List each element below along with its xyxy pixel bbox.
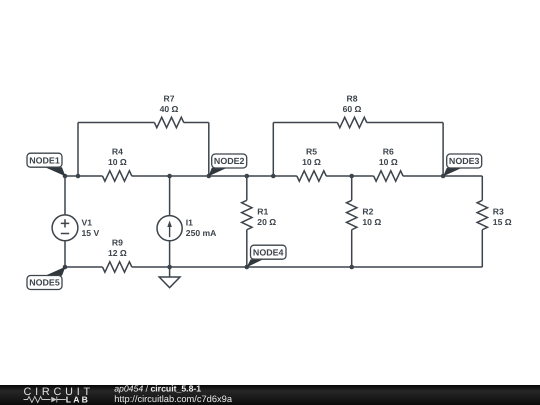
junction R7 left drop — [76, 174, 81, 179]
wire left rail top (NODE1 to V1) — [64, 176, 66, 215]
svg-text:R2: R2 — [362, 207, 373, 217]
svg-text:http://circuitlab.com/c7d6x9a: http://circuitlab.com/c7d6x9a — [114, 394, 233, 404]
ground symbol — [159, 267, 180, 288]
svg-text:NODE5: NODE5 — [29, 278, 60, 288]
svg-text:10 Ω: 10 Ω — [362, 217, 381, 227]
wire R8 top right segment — [367, 122, 443, 124]
node NODE1 callout — [27, 153, 65, 176]
label R4 10 Ohm — [108, 147, 127, 167]
current source I1 — [157, 216, 182, 241]
svg-text:R3: R3 — [493, 207, 504, 217]
junction bottom rail NODE5 — [63, 265, 68, 270]
wire R8 top left segment — [273, 122, 337, 124]
svg-text:ap0454 / circuit_5.8-1: ap0454 / circuit_5.8-1 — [114, 383, 201, 393]
svg-text:250 mA: 250 mA — [186, 228, 217, 238]
resistor R9 12 Ohm zigzag — [102, 262, 131, 272]
svg-text:R6: R6 — [383, 147, 394, 157]
label R3 15 Ohm — [493, 207, 512, 227]
label R8 60 Ohm — [343, 94, 362, 114]
svg-text:20 Ω: 20 Ω — [257, 217, 276, 227]
resistor R3 15 Ohm zigzag — [477, 200, 487, 229]
node NODE2 callout — [209, 154, 247, 176]
svg-text:NODE3: NODE3 — [449, 156, 480, 166]
junction R2 top — [349, 174, 354, 179]
wire top rail segment R6 to right corner — [403, 175, 482, 177]
wire right rail bottom (R3 to bottom) — [481, 230, 483, 267]
svg-text:R4: R4 — [112, 147, 123, 157]
svg-text:R7: R7 — [164, 94, 175, 104]
wire R8 left drop — [272, 123, 274, 177]
wire R7 top right segment — [184, 122, 209, 124]
label R5 10 Ohm — [302, 147, 321, 167]
wire bottom rail segment left corner to R9 — [65, 266, 102, 268]
resistor R2 10 Ohm zigzag — [347, 200, 357, 229]
wire R8 right drop — [442, 123, 444, 177]
svg-text:60 Ω: 60 Ω — [343, 104, 362, 114]
label R7 40 Ohm — [160, 94, 179, 114]
wire top rail segment R4 to R5 — [132, 175, 297, 177]
wire R1 bottom lead — [246, 230, 248, 267]
wire I1 bottom lead — [169, 241, 171, 267]
footer text line 2: url — [114, 394, 233, 404]
svg-text:40 Ω: 40 Ω — [160, 104, 179, 114]
resistor R6 10 Ohm zigzag — [374, 171, 403, 181]
junction R1 bottom NODE4 — [245, 265, 250, 270]
junction ground I1 bottom — [167, 265, 172, 270]
svg-text:I1: I1 — [186, 218, 193, 228]
wire R2 bottom lead — [351, 230, 353, 267]
svg-text:R9: R9 — [112, 237, 123, 247]
resistor R7 40 Ohm zigzag — [154, 117, 183, 127]
wire R2 top lead — [351, 176, 353, 200]
voltage source V1 — [52, 215, 78, 241]
label I1 250 mA — [186, 218, 217, 238]
wire R7 left drop — [77, 123, 79, 177]
resistor R1 20 Ohm zigzag — [242, 200, 252, 229]
svg-text:R1: R1 — [257, 207, 268, 217]
wire I1 top lead — [169, 176, 171, 216]
junction R2 bottom — [349, 265, 354, 270]
svg-text:V1: V1 — [82, 218, 93, 228]
resistor R4 10 Ohm zigzag — [102, 171, 131, 181]
junction R8 right drop NODE3 — [441, 174, 446, 179]
label R2 10 Ohm — [362, 207, 381, 227]
svg-text:R5: R5 — [306, 147, 317, 157]
wire right rail top (NODE3 to R3) — [481, 176, 483, 200]
svg-text:10 Ω: 10 Ω — [379, 157, 398, 167]
svg-text:10 Ω: 10 Ω — [108, 157, 127, 167]
svg-text:R8: R8 — [347, 94, 358, 104]
wire bottom rail segment R9 to right corner — [132, 266, 483, 268]
junction R8 left drop — [271, 174, 276, 179]
svg-text:NODE4: NODE4 — [253, 247, 284, 257]
resistor R8 60 Ohm zigzag — [337, 117, 366, 127]
resistor R5 10 Ohm zigzag — [297, 171, 326, 181]
wire R7 right drop — [208, 123, 210, 177]
svg-text:LAB: LAB — [66, 395, 90, 405]
svg-text:15 Ω: 15 Ω — [493, 217, 512, 227]
svg-text:NODE2: NODE2 — [214, 156, 245, 166]
footer bar — [0, 385, 540, 405]
footer text line 1: ap0454 / circuit_5.8-1 — [114, 383, 201, 393]
wire R7 top left segment — [78, 122, 154, 124]
svg-text:NODE1: NODE1 — [29, 155, 60, 165]
wire top rail segment R5 to R6 — [326, 175, 374, 177]
label R1 20 Ohm — [257, 207, 276, 227]
wire left rail bottom (V1 to NODE5) — [64, 240, 66, 267]
wire top rail segment NODE1 to R4 — [65, 175, 102, 177]
label V1 15 V — [82, 218, 100, 238]
svg-text:12 Ω: 12 Ω — [108, 248, 127, 258]
junction R1 top — [245, 174, 250, 179]
svg-text:15 V: 15 V — [82, 228, 100, 238]
svg-text:10 Ω: 10 Ω — [302, 157, 321, 167]
junction R7 right drop NODE2 — [207, 174, 212, 179]
node NODE4 callout — [247, 245, 287, 267]
logo CIRCUIT LAB — [24, 386, 94, 405]
junction top rail at NODE1 — [63, 174, 68, 179]
node NODE3 callout — [443, 154, 482, 176]
junction I1 top — [167, 174, 172, 179]
wire R1 top lead — [246, 176, 248, 200]
node NODE5 callout — [27, 267, 65, 290]
label R9 12 Ohm — [108, 237, 127, 257]
label R6 10 Ohm — [379, 147, 398, 167]
